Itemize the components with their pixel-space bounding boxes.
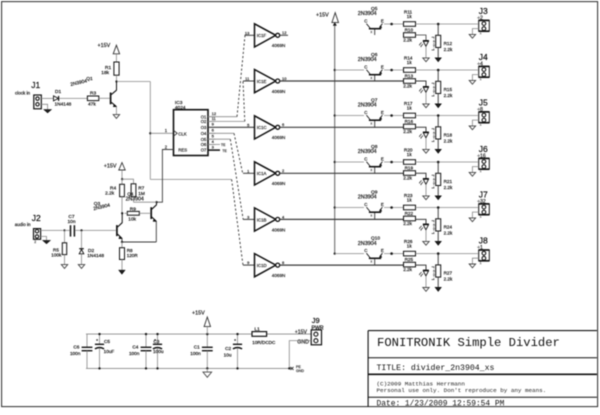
svg-text:x: x: [371, 76, 373, 80]
svg-text:10: 10: [282, 76, 287, 81]
svg-text:2N3904: 2N3904: [358, 241, 377, 247]
svg-text:1N4148: 1N4148: [55, 101, 72, 107]
svg-text:C: C: [364, 19, 367, 24]
svg-text:2N3904: 2N3904: [358, 11, 377, 17]
svg-text:1: 1: [480, 215, 482, 219]
svg-text:10uF: 10uF: [104, 349, 115, 354]
svg-text:D1: D1: [55, 89, 61, 95]
svg-text:C2: C2: [225, 346, 231, 351]
svg-text:R7: R7: [138, 186, 144, 192]
svg-text:E: E: [381, 19, 384, 24]
svg-text:2N3904: 2N3904: [358, 57, 377, 63]
svg-text:1k: 1k: [407, 152, 413, 157]
svg-text:1k: 1k: [407, 197, 413, 202]
svg-text:TITLE: divider_2n3904_xs: TITLE: divider_2n3904_xs: [377, 363, 495, 373]
svg-text:13: 13: [245, 30, 250, 35]
svg-text:10k: 10k: [128, 216, 136, 222]
svg-text:2.2k: 2.2k: [403, 129, 412, 134]
svg-text:O3: O3: [201, 125, 207, 130]
svg-text:x: x: [371, 168, 373, 172]
svg-text:R27: R27: [444, 271, 453, 276]
svg-text:4069N: 4069N: [272, 227, 286, 232]
svg-text:TE: TE: [222, 149, 227, 153]
svg-text:x: x: [371, 122, 373, 126]
svg-text:1k: 1k: [407, 105, 413, 110]
svg-text:O6: O6: [201, 142, 207, 147]
svg-text:2N3904: 2N3904: [358, 195, 377, 201]
svg-text:4069N: 4069N: [272, 43, 286, 48]
svg-text:2.2k: 2.2k: [444, 47, 453, 52]
svg-text:4069N: 4069N: [272, 273, 286, 278]
svg-text:R10: R10: [405, 28, 414, 33]
svg-text:4069N: 4069N: [272, 89, 286, 94]
svg-text:1: 1: [480, 77, 482, 81]
svg-text:IC1F: IC1F: [257, 33, 267, 38]
svg-text:R24: R24: [444, 224, 453, 229]
svg-text:J7: J7: [479, 190, 488, 200]
svg-text:C: C: [364, 65, 367, 70]
svg-text:O7: O7: [201, 148, 207, 153]
svg-text:R4: R4: [110, 185, 116, 191]
svg-text:R3: R3: [90, 90, 96, 96]
svg-text:R16: R16: [405, 119, 414, 124]
svg-text:2.2k: 2.2k: [403, 175, 412, 180]
svg-text:x: x: [371, 214, 373, 218]
svg-text:2.2k: 2.2k: [444, 139, 453, 144]
svg-text:2N3904: 2N3904: [358, 103, 377, 109]
svg-text:FONITRONIK Simple Divider: FONITRONIK Simple Divider: [377, 336, 560, 350]
svg-text:100n: 100n: [70, 351, 81, 356]
svg-text:J5: J5: [479, 98, 488, 108]
svg-text:C: C: [364, 157, 367, 162]
svg-text:C: C: [364, 110, 367, 115]
svg-text:+15V: +15V: [104, 163, 117, 169]
svg-text:2.2k: 2.2k: [444, 231, 453, 236]
svg-text:1: 1: [480, 169, 482, 173]
svg-text:R25: R25: [405, 257, 414, 262]
svg-text:4069N: 4069N: [272, 181, 286, 186]
svg-text:R21: R21: [444, 179, 453, 184]
svg-text:x: x: [371, 30, 373, 34]
svg-text:2.2k: 2.2k: [444, 277, 453, 282]
svg-text:IC1C: IC1C: [257, 125, 267, 130]
svg-text:Q1: Q1: [86, 76, 93, 82]
svg-text:E: E: [381, 157, 384, 162]
svg-text:E: E: [381, 110, 384, 115]
svg-text:100u: 100u: [153, 349, 164, 354]
svg-text:J4: J4: [479, 52, 488, 62]
svg-text:R15: R15: [444, 87, 453, 92]
svg-text:O2: O2: [201, 119, 207, 124]
svg-text:E: E: [381, 65, 384, 70]
svg-text:IC1E: IC1E: [257, 79, 267, 84]
svg-text:J6: J6: [479, 144, 488, 154]
svg-text:C1: C1: [194, 345, 200, 350]
svg-text:O4: O4: [201, 131, 207, 136]
svg-text:1k: 1k: [407, 243, 413, 248]
svg-text:J2: J2: [32, 213, 41, 223]
svg-text:IC1D: IC1D: [257, 263, 267, 268]
svg-text:J8: J8: [479, 236, 488, 246]
svg-text:J9: J9: [312, 316, 320, 325]
svg-text:100n: 100n: [190, 351, 201, 356]
svg-text:C7: C7: [68, 214, 74, 220]
svg-text:2.2k: 2.2k: [403, 267, 412, 272]
svg-text:+15V: +15V: [316, 13, 329, 19]
svg-text:Date: 1/23/2009 12:59:54 PM: Date: 1/23/2009 12:59:54 PM: [377, 399, 505, 408]
svg-text:x: x: [371, 260, 373, 264]
svg-text:10u: 10u: [224, 353, 232, 358]
svg-text:120R: 120R: [127, 253, 139, 258]
svg-text:100n: 100n: [129, 351, 140, 356]
svg-text:10R/DCDC: 10R/DCDC: [252, 340, 276, 345]
svg-text:R1: R1: [105, 65, 111, 71]
svg-text:12: 12: [282, 30, 287, 35]
svg-text:+15V: +15V: [98, 43, 111, 49]
svg-text:J3: J3: [479, 6, 488, 16]
svg-text:18k: 18k: [101, 70, 109, 76]
svg-text:E: E: [381, 248, 384, 253]
svg-text:R13: R13: [405, 74, 414, 79]
svg-text:IC1A: IC1A: [257, 171, 267, 176]
svg-text:C4: C4: [132, 345, 138, 350]
svg-text:1k: 1k: [407, 14, 413, 19]
svg-text:2.2k: 2.2k: [403, 83, 412, 88]
svg-text:47k: 47k: [88, 101, 96, 107]
svg-text:GND: GND: [296, 369, 304, 373]
svg-text:RES: RES: [178, 147, 187, 152]
svg-text:100k: 100k: [51, 253, 62, 258]
svg-text:J1: J1: [31, 80, 40, 90]
svg-text:C: C: [364, 248, 367, 253]
svg-text:clock in: clock in: [15, 90, 31, 95]
svg-text:CLK: CLK: [178, 131, 187, 136]
svg-text:2N3904: 2N3904: [126, 197, 144, 203]
svg-text:1: 1: [480, 123, 482, 127]
svg-text:1: 1: [480, 31, 482, 35]
svg-text:2.2k: 2.2k: [403, 221, 412, 226]
svg-text:TE: TE: [221, 143, 226, 147]
svg-text:C6: C6: [73, 345, 79, 350]
svg-text:2N3904: 2N3904: [358, 149, 377, 155]
svg-text:1N4148: 1N4148: [87, 253, 104, 259]
svg-text:2.2k: 2.2k: [444, 93, 453, 98]
svg-text:audio in: audio in: [15, 222, 31, 227]
svg-text:E: E: [381, 202, 384, 207]
svg-text:2.2k: 2.2k: [105, 191, 115, 197]
svg-text:+15V: +15V: [295, 330, 308, 336]
svg-text:Personal use only. Don't repro: Personal use only. Don't reproduce by an…: [377, 387, 547, 394]
svg-text:1k: 1k: [407, 60, 413, 65]
svg-text:R18: R18: [444, 132, 453, 137]
svg-text:1: 1: [480, 261, 482, 265]
svg-text:R12: R12: [444, 41, 453, 46]
svg-text:C5: C5: [104, 339, 110, 344]
svg-text:2: 2: [34, 240, 36, 244]
svg-text:2.2k: 2.2k: [444, 185, 453, 190]
svg-text:IC1B: IC1B: [257, 217, 267, 222]
svg-text:R19: R19: [405, 166, 414, 171]
svg-text:C: C: [364, 202, 367, 207]
svg-text:2.2k: 2.2k: [403, 37, 412, 42]
svg-text:4069N: 4069N: [272, 135, 286, 140]
svg-text:C3: C3: [153, 339, 159, 344]
svg-text:10n: 10n: [68, 219, 76, 225]
svg-text:+15V: +15V: [192, 311, 205, 317]
svg-text:R22: R22: [405, 211, 414, 216]
